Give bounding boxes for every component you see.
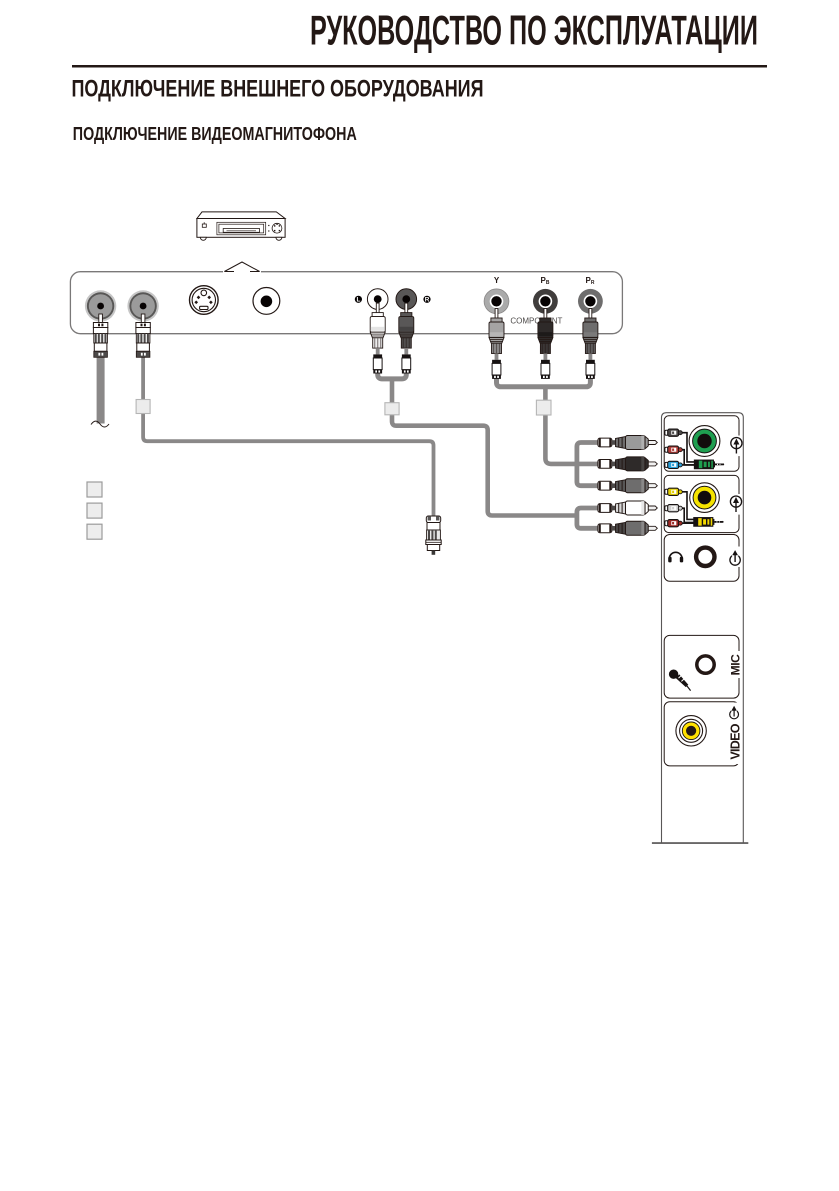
dark red mini connector xyxy=(665,520,682,527)
VIDEO label + out icon (rotated) xyxy=(729,703,743,765)
VIDEO jack (yellow RCA) xyxy=(676,716,706,746)
component Pb jack xyxy=(533,289,558,314)
headphone jack ring xyxy=(696,548,714,566)
rule under title xyxy=(72,65,767,68)
audio cable Y-join xyxy=(378,373,407,379)
svg-text:ПОДКЛЮЧЕНИЕ ВИДЕОМАГНИТОФОНА: ПОДКЛЮЧЕНИЕ ВИДЕОМАГНИТОФОНА xyxy=(73,124,357,144)
RF plug 2 xyxy=(136,314,150,357)
svg-text:ПОДКЛЮЧЕНИЕ ВНЕШНЕГО ОБОРУДОВА: ПОДКЛЮЧЕНИЕ ВНЕШНЕГО ОБОРУДОВАНИЯ xyxy=(72,76,484,103)
headphone icon xyxy=(668,552,683,562)
RCA plug to yellow row2 (gray) xyxy=(598,521,657,535)
green mini connector blue xyxy=(665,461,682,468)
audio R plug (dark) xyxy=(399,303,414,373)
audio R jack xyxy=(396,289,417,310)
rear panel xyxy=(70,272,622,334)
green mini connector red xyxy=(665,446,682,453)
component cable join xyxy=(497,378,591,387)
headphone out icon xyxy=(729,547,742,568)
yellow section arrow icon xyxy=(730,494,741,515)
green section box xyxy=(664,416,739,471)
audio L jack xyxy=(367,289,388,310)
svg-text:COMPONENT: COMPONENT xyxy=(510,317,562,326)
component Y jack xyxy=(484,289,509,314)
component Pr plug xyxy=(583,309,598,379)
label L xyxy=(355,296,362,304)
ferrite bead on RF cable 2 xyxy=(136,400,150,414)
composite video jack xyxy=(253,288,280,315)
VIDEO section box xyxy=(664,702,739,766)
ferrite bead on component cable xyxy=(536,400,551,415)
yellow section wires xyxy=(682,492,695,523)
RF cable 1 (thick, with break) xyxy=(91,357,109,427)
right side panel xyxy=(662,413,744,843)
svg-text:Y: Y xyxy=(494,276,500,285)
label R xyxy=(423,296,430,304)
audio fan-out bracket to yellow section xyxy=(577,508,598,528)
microphone icon xyxy=(669,670,691,691)
green 3.5mm plug xyxy=(694,460,724,469)
MIC jack ring xyxy=(697,656,714,673)
svg-text:L: L xyxy=(356,297,360,304)
green section arrow icon xyxy=(731,436,742,457)
green jack xyxy=(689,426,720,457)
green mini connector dark xyxy=(665,429,682,436)
RCA plug to green row2 xyxy=(598,457,657,471)
three legend squares xyxy=(87,482,102,539)
MIC label (rotated) xyxy=(728,651,742,678)
component Pb plug xyxy=(538,309,553,379)
white mini connector xyxy=(665,505,682,512)
RCA plug to yellow row1 (white) xyxy=(598,501,657,515)
component Y plug xyxy=(489,309,504,379)
component Pr jack xyxy=(578,289,603,314)
RCA plug to green row3 xyxy=(598,479,657,493)
yellow jack xyxy=(690,483,720,513)
svg-text:VIDEO: VIDEO xyxy=(729,723,743,759)
yellow 3.5mm plug xyxy=(694,518,724,527)
ferrite bead on audio cable xyxy=(385,403,399,415)
svg-text:MIC: MIC xyxy=(728,654,742,676)
yellow mini connector xyxy=(665,488,682,495)
yellow section box xyxy=(664,475,739,532)
right panel bottom line xyxy=(652,842,748,844)
component fan-out bracket to green section xyxy=(577,443,598,486)
RF cable 2 (thin, to dangling plug) xyxy=(143,357,433,517)
RCA plug to green row1 xyxy=(598,436,657,450)
svg-text:РУКОВОДСТВО ПО ЭКСПЛУАТАЦИИ: РУКОВОДСТВО ПО ЭКСПЛУАТАЦИИ xyxy=(310,7,758,54)
green section wires xyxy=(682,433,696,465)
MIC section box xyxy=(664,635,739,698)
VCR device xyxy=(197,212,285,240)
RF plug 1 xyxy=(93,314,107,357)
audio L plug (white) xyxy=(370,303,385,373)
svg-text:R: R xyxy=(425,297,430,304)
arrow panel to VCR xyxy=(223,262,261,274)
S-Video jack xyxy=(190,286,219,315)
headphone section box xyxy=(664,535,739,582)
RF jack 1 xyxy=(85,290,116,321)
RF jack 2 xyxy=(127,290,158,321)
dangling RF plug xyxy=(426,516,441,555)
